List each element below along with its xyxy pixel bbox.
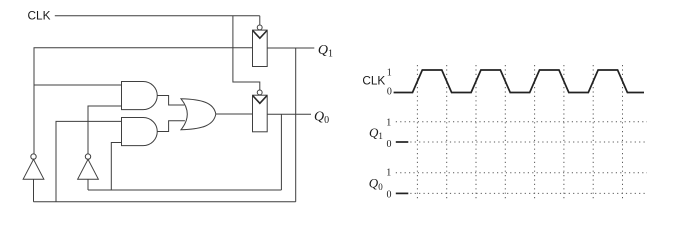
svg-text:1: 1 xyxy=(386,168,391,179)
svg-text:CLK: CLK xyxy=(362,73,385,87)
svg-text:0: 0 xyxy=(387,139,392,150)
svg-text:1: 1 xyxy=(386,117,391,128)
svg-text:0: 0 xyxy=(387,86,392,97)
svg-text:CLK: CLK xyxy=(28,9,51,23)
svg-text:1: 1 xyxy=(387,68,392,79)
svg-text:0: 0 xyxy=(387,189,392,200)
